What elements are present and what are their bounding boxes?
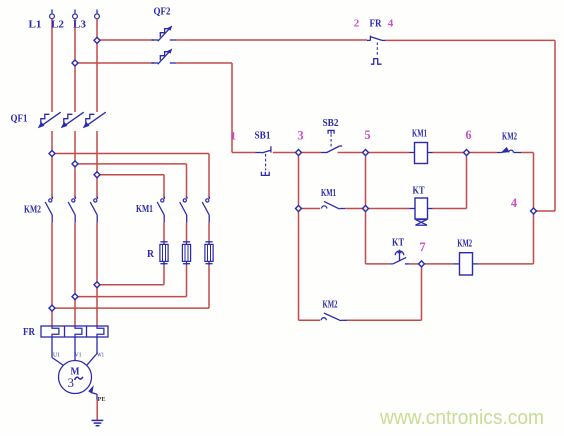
svg-text:V1: V1 xyxy=(75,353,82,359)
svg-text:FR: FR xyxy=(370,18,383,30)
svg-text:KT: KT xyxy=(392,236,404,248)
svg-text:L2: L2 xyxy=(51,18,64,30)
svg-text:3: 3 xyxy=(297,129,303,143)
svg-text:KM1: KM1 xyxy=(412,128,427,140)
svg-text:QF1: QF1 xyxy=(11,113,28,125)
svg-text:www.cntronics.com: www.cntronics.com xyxy=(379,406,544,429)
svg-text:W1: W1 xyxy=(97,353,104,359)
svg-text:PE: PE xyxy=(98,396,106,403)
svg-text:5: 5 xyxy=(364,128,370,142)
svg-text:SB1: SB1 xyxy=(255,130,271,142)
svg-text:KM2: KM2 xyxy=(457,238,472,250)
svg-text:KM2: KM2 xyxy=(502,131,517,143)
svg-text:1: 1 xyxy=(230,131,236,143)
svg-text:KM1: KM1 xyxy=(136,203,153,215)
svg-text:FR: FR xyxy=(23,326,36,338)
svg-text:U1: U1 xyxy=(53,353,60,359)
svg-text:KT: KT xyxy=(413,184,425,196)
svg-text:SB2: SB2 xyxy=(323,117,339,129)
svg-text:2: 2 xyxy=(354,18,360,30)
svg-text:4: 4 xyxy=(511,196,518,210)
svg-text:3: 3 xyxy=(68,375,75,390)
svg-text:6: 6 xyxy=(465,128,471,142)
svg-text:QF2: QF2 xyxy=(154,6,171,18)
svg-text:R: R xyxy=(147,248,155,260)
svg-text:KM1: KM1 xyxy=(321,187,336,199)
svg-text:7: 7 xyxy=(419,240,425,254)
svg-text:KM2: KM2 xyxy=(323,299,338,311)
svg-text:KM2: KM2 xyxy=(24,204,41,216)
svg-text:L3: L3 xyxy=(73,18,86,30)
svg-text:L1: L1 xyxy=(29,18,42,30)
svg-text:4: 4 xyxy=(388,18,394,30)
